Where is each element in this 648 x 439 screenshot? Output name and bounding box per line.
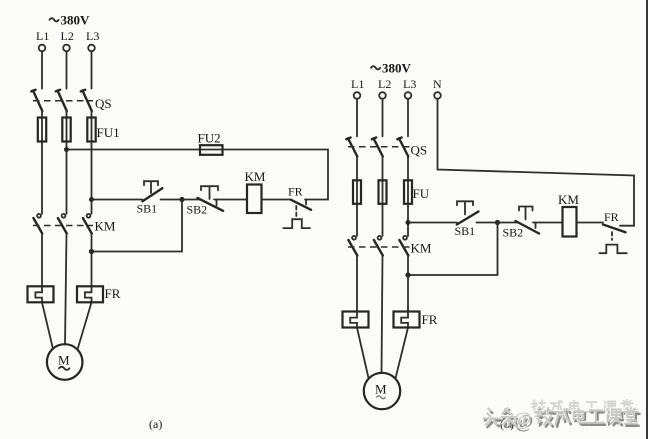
svg-text:@: @ <box>513 409 532 431</box>
wire L3 terminal to QS (right) <box>407 99 409 137</box>
node L2 (left) <box>61 29 74 51</box>
fuse FU2 <box>198 131 223 155</box>
motor M (right) <box>364 373 400 409</box>
wire L3 KM to motor with FR heater jog (right) <box>396 256 409 379</box>
svg-text:SB1: SB1 <box>137 202 158 216</box>
svg-text:KM: KM <box>558 192 579 207</box>
wire junction to SB2 (left) <box>182 199 201 201</box>
svg-text:KM: KM <box>411 241 432 256</box>
scan border right edge <box>646 0 648 439</box>
svg-text:L2: L2 <box>61 29 74 43</box>
node L3 (right) <box>403 77 416 99</box>
wire L1 KM to motor with FR heater jog (right) <box>350 256 368 379</box>
junction latch tap (left) <box>179 197 184 202</box>
node L1 (left) <box>36 29 49 51</box>
node N (right) <box>433 77 442 99</box>
junction latch return on L3 (left) <box>89 249 94 254</box>
svg-text:SB2: SB2 <box>503 226 524 240</box>
fuse FU (right, 3-pole) <box>353 180 430 204</box>
disconnect switch QS (left, 3-pole) <box>31 90 111 111</box>
svg-text:(a): (a) <box>149 417 162 431</box>
disconnect switch QS (right, 3-pole) <box>346 138 427 158</box>
svg-text:L2: L2 <box>378 77 391 91</box>
wire L3 KM to motor with FR heater jog (left) <box>78 234 92 350</box>
node L3 (left) <box>86 29 99 51</box>
junction latch tap (right) <box>495 220 500 225</box>
svg-text:L3: L3 <box>86 29 99 43</box>
wire latch branch from junction down and left to L3 (right) <box>408 223 498 276</box>
net label ~380V (right supply) <box>371 66 380 69</box>
svg-text:FR: FR <box>604 210 619 224</box>
watermark ghost echo 技成电工课堂 <box>532 400 633 414</box>
wire L2 QS to FU1 and down to KM (left) <box>66 111 68 214</box>
wire L1 QS to FU1 and down to KM (left) <box>41 111 43 214</box>
svg-text:FR: FR <box>422 312 438 327</box>
wire L2 terminal to QS (right) <box>382 99 384 137</box>
node L2 (right) <box>378 77 391 99</box>
pushbutton SB1 start (right) <box>455 201 479 238</box>
thermal relay heater elements FR (right) <box>343 312 438 328</box>
svg-text:QS: QS <box>95 96 112 111</box>
thermal relay heater elements FR (left) <box>28 286 121 302</box>
contactor coil KM (right) <box>558 192 579 237</box>
wire SB2 to KM coil (right) <box>533 222 563 224</box>
svg-text:FU1: FU1 <box>97 125 120 140</box>
thermal overload NC contact FR (right) <box>599 210 626 253</box>
wire SB1 to latch junction (left) <box>161 199 183 201</box>
wire KM coil to FR contact (left) <box>262 199 292 201</box>
wire N terminal down and across to FR (right) <box>438 99 635 226</box>
wire latch branch from junction down and left to L3 (left) <box>92 200 183 252</box>
wire control feed: L2 tap through FU2 to right corner riser (left) <box>67 150 329 200</box>
svg-text:L1: L1 <box>351 77 364 91</box>
pushbutton SB1 start (left) <box>137 181 163 215</box>
wire L3 QS to FU and down to KM (right) <box>407 157 409 237</box>
motor M (left) <box>47 344 83 380</box>
net label ~380V (left supply) <box>50 18 59 21</box>
wire L2 terminal to QS (left) <box>66 51 68 88</box>
svg-text:N: N <box>433 77 442 91</box>
wire L3 QS to FU1 and down to KM (left) <box>91 111 93 214</box>
wire L3 tap to SB1 (right) <box>408 222 457 224</box>
contactor KM main contacts (right, 3-pole) <box>348 236 432 256</box>
wire SB2 to KM coil (left) <box>214 199 247 201</box>
thermal overload NC contact FR (left) <box>283 185 311 229</box>
wire L3 terminal to QS (left) <box>91 51 93 88</box>
svg-text:L1: L1 <box>36 29 49 43</box>
junction latch return on L3 (right) <box>405 272 410 277</box>
svg-text:SB2: SB2 <box>187 203 208 217</box>
svg-text:380V: 380V <box>61 13 91 28</box>
svg-text:KM: KM <box>245 169 266 184</box>
wire L3 tap to SB1 (left) <box>92 199 143 201</box>
wire L2 KM to motor (left) <box>65 234 67 345</box>
contactor coil KM (left) <box>245 169 266 213</box>
svg-text:KM: KM <box>95 219 116 234</box>
svg-text:L3: L3 <box>403 77 416 91</box>
wire L2 QS to FU and down to KM (right) <box>382 157 384 237</box>
svg-text:FR: FR <box>288 185 303 199</box>
wire L2 KM to motor (right) <box>382 256 383 373</box>
pushbutton SB2 stop (right) <box>503 207 540 240</box>
svg-text:M: M <box>58 353 70 368</box>
wire L1 QS to FU and down to KM (right) <box>356 157 358 237</box>
junction on L2 feeding control fuse FU2 (left) <box>64 147 69 152</box>
node L1 (right) <box>351 77 364 99</box>
watermark main 头条@技成电工课堂 embossed <box>485 410 639 433</box>
contactor KM main contacts (left, 3-pole) <box>33 214 116 234</box>
wire KM coil to FR contact (right) <box>577 222 604 224</box>
wire L1 terminal to QS (right) <box>356 99 358 137</box>
svg-text:QS: QS <box>411 143 428 158</box>
pushbutton SB2 stop (left) <box>187 186 224 216</box>
svg-text:SB1: SB1 <box>455 224 476 238</box>
wire SB1 to latch junction (right) <box>477 222 498 224</box>
svg-text:M: M <box>375 382 387 397</box>
fuse FU1 (left, 3-pole) <box>38 118 120 142</box>
junction on L3 feeding control line (right) <box>406 220 411 225</box>
wire L1 terminal to QS (left) <box>41 51 43 88</box>
wire L1 KM to motor with FR heater jog (left) <box>35 234 53 349</box>
svg-text:FU2: FU2 <box>198 131 221 146</box>
svg-text:FR: FR <box>105 286 121 301</box>
junction on L3 feeding control line (left) <box>89 197 94 202</box>
svg-text:380V: 380V <box>382 61 412 76</box>
wire junction to SB2 (right) <box>498 222 518 224</box>
svg-text:FU: FU <box>413 186 430 201</box>
